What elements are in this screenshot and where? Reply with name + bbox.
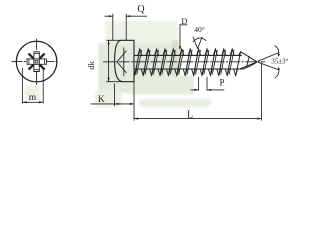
D leader vertical: [179, 25, 181, 50]
screw head profile (side view): [115, 40, 134, 81]
watermark lower-mid block: [128, 75, 194, 95]
dk bottom extension line: [106, 81, 122, 83]
watermark badge right border: [172, 40, 179, 92]
40 degree right flank line: [198, 37, 203, 49]
taper crest line 2: [246, 56, 249, 68]
L arrow left: [134, 118, 138, 120]
dimension m left extension line: [21, 68, 23, 103]
dk dimension line: [108, 40, 110, 81]
head outline circle (front view): [16, 41, 57, 82]
thread bottom crest envelope: [134, 69, 240, 75]
watermark main badge: [99, 44, 180, 93]
dimension m right extension line: [42, 68, 44, 103]
thread core lower line: [134, 68, 243, 70]
40 degree arc: [193, 38, 207, 42]
K arrow right: [130, 103, 134, 105]
dk arrow down: [108, 78, 110, 82]
Q dimension left piece: [105, 15, 113, 17]
screw tip taper outline bottom: [240, 62, 258, 69]
taper crest line 1: [236, 52, 241, 75]
pozidriv wing tip caps: [29, 54, 45, 70]
P arrow right: [195, 89, 199, 91]
svg-text:35±3°: 35±3°: [271, 57, 288, 65]
L right extension line: [260, 63, 262, 121]
Q arrow left: [126, 15, 130, 17]
watermark badge bottom border: [99, 90, 179, 93]
pozidriv cross wings: [27, 52, 46, 72]
Q right extension line: [125, 14, 127, 40]
point angle lower arc arrow: [277, 67, 280, 70]
svg-text:Q: Q: [137, 4, 145, 15]
front view vertical centerline: [36, 39, 38, 86]
pozidriv center square: [34, 59, 39, 64]
40 degree left flank line: [193, 37, 198, 49]
Q arrow right: [109, 15, 113, 17]
recess cone lower line: [117, 62, 127, 73]
watermark upper block: [105, 21, 178, 45]
D leader underline: [180, 24, 188, 26]
K left extension line: [114, 84, 116, 106]
Q dimension right piece: [126, 15, 147, 17]
svg-text:m: m: [29, 93, 37, 103]
dimension m line: [22, 101, 43, 103]
svg-text:K: K: [98, 95, 105, 105]
point angle upper arc arrow: [277, 54, 280, 57]
P left extension line: [198, 77, 200, 91]
D arrow down: [179, 46, 181, 50]
L dimension line: [134, 118, 261, 120]
m arrow left: [22, 101, 26, 103]
pozidriv inner square: [35, 60, 38, 63]
front view horizontal centerline: [12, 61, 59, 63]
watermark patch under K: [95, 90, 122, 107]
P dimension right piece: [207, 89, 224, 91]
screw tip taper outline top: [238, 52, 257, 62]
svg-text:40°: 40°: [194, 25, 205, 34]
K dimension line: [91, 103, 134, 105]
point angle lower line: [258, 62, 279, 70]
watermark small square left: [25, 86, 40, 100]
K arrow left: [115, 103, 119, 105]
svg-text:P: P: [219, 78, 224, 88]
Q left extension line: [112, 14, 114, 40]
pozidriv diagonal rays: [29, 54, 45, 70]
dk arrow up: [108, 40, 110, 44]
svg-text:dk: dk: [86, 60, 96, 69]
watermark badge left border: [99, 44, 102, 93]
side view centerline: [103, 61, 265, 63]
P right extension line: [206, 77, 208, 91]
P dimension left piece: [191, 89, 199, 91]
recess slot vertical line (side view): [123, 48, 125, 77]
svg-text:L: L: [187, 109, 193, 120]
svg-text:D: D: [181, 16, 187, 26]
K/L shared extension line at head face: [133, 82, 135, 121]
point angle upper line: [258, 53, 279, 62]
point angle lower arc: [275, 68, 279, 78]
m arrow right: [39, 101, 43, 103]
recess cone upper line: [117, 51, 127, 62]
thread core upper line: [134, 54, 242, 56]
thread flank lines: [135, 49, 234, 75]
L arrow right: [257, 118, 261, 120]
thread top crest envelope: [134, 49, 238, 55]
watermark bottom band: [139, 99, 211, 107]
dk top extension line: [106, 39, 121, 41]
P arrow left: [207, 89, 211, 91]
point angle upper arc: [275, 46, 279, 56]
